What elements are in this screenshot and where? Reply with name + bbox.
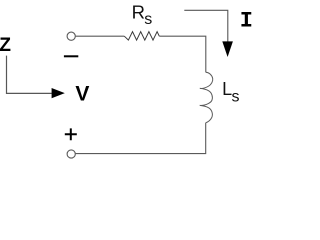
resistor Rs zigzag — [124, 32, 159, 40]
wire inductor to bottom corner to bottom terminal — [76, 123, 206, 154]
svg-text:R: R — [132, 2, 145, 23]
terminal bottom (open circle) — [67, 150, 75, 158]
arrow Z to V (impedance arrow) — [7, 56, 52, 94]
minus polarity mark — [64, 55, 78, 57]
arrow I (current arrow) — [184, 10, 228, 42]
wire resistor to top-right corner — [159, 36, 206, 72]
svg-text:Z: Z — [0, 35, 11, 56]
wire top terminal to resistor — [76, 35, 125, 37]
svg-text:V: V — [75, 83, 89, 106]
svg-text:s: s — [144, 11, 152, 28]
terminal top (open circle) — [67, 32, 75, 40]
svg-text:I: I — [240, 9, 253, 34]
plus polarity mark — [65, 128, 77, 140]
svg-text:s: s — [232, 89, 240, 106]
inductor Ls — [200, 72, 213, 123]
